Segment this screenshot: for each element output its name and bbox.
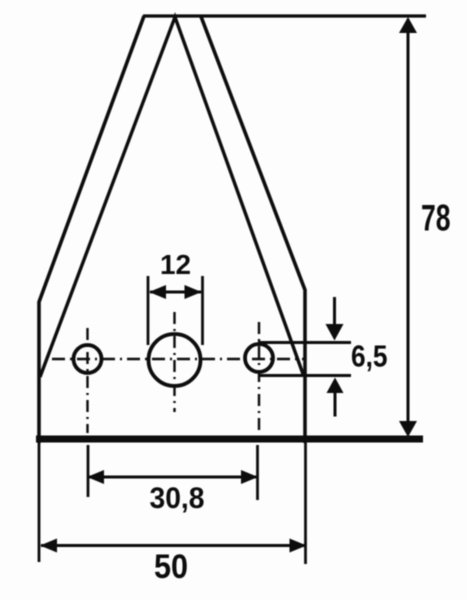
dim 50 left arrow [40, 539, 57, 553]
dim 6,5 bottom arrow [334, 391, 337, 417]
left outer edge [39, 16, 144, 443]
dim 6,5 top arrow [333, 297, 336, 326]
top edge / extension line [143, 14, 426, 17]
bottom edge [36, 436, 423, 443]
inner bevel edges [40, 17, 303, 377]
dim 78 line [407, 19, 410, 434]
dim 6,5 bottom extension line [260, 374, 351, 377]
dim 30,8 right arrow [241, 470, 258, 484]
dim 12 line [150, 291, 201, 294]
right hole vertical centerline [258, 322, 260, 433]
horizontal centerline [52, 358, 305, 360]
dim 50 left extension line [38, 443, 41, 562]
hole right [245, 344, 273, 372]
svg-text:12: 12 [160, 249, 191, 280]
dim 30,8 right extension line [256, 445, 259, 500]
dim 12 left extension line [147, 276, 150, 345]
hole left [74, 345, 102, 373]
dim 78 top arrow [399, 17, 417, 33]
dim 12 left arrow [149, 285, 166, 299]
svg-text:50: 50 [154, 548, 188, 586]
dim 30,8 left arrow [87, 470, 104, 484]
dim 50 right arrow [290, 539, 307, 553]
svg-text:78: 78 [421, 198, 451, 239]
dim 12 right arrow [185, 285, 202, 299]
dim 12 right extension line [201, 276, 204, 345]
left hole vertical centerline [86, 328, 88, 433]
dim 50 line [41, 544, 305, 547]
hole center [149, 334, 201, 386]
dim 30,8 line [89, 476, 256, 479]
dim 78 bottom arrow [399, 421, 417, 437]
svg-text:30,8: 30,8 [150, 482, 205, 515]
dim 6,5 top extension line [258, 341, 351, 344]
center hole vertical centerline [173, 312, 175, 412]
right outer edge [201, 17, 305, 444]
dim 50 right extension line [304, 443, 307, 564]
svg-text:6,5: 6,5 [351, 339, 388, 374]
dim 30,8 left extension line [87, 445, 90, 497]
